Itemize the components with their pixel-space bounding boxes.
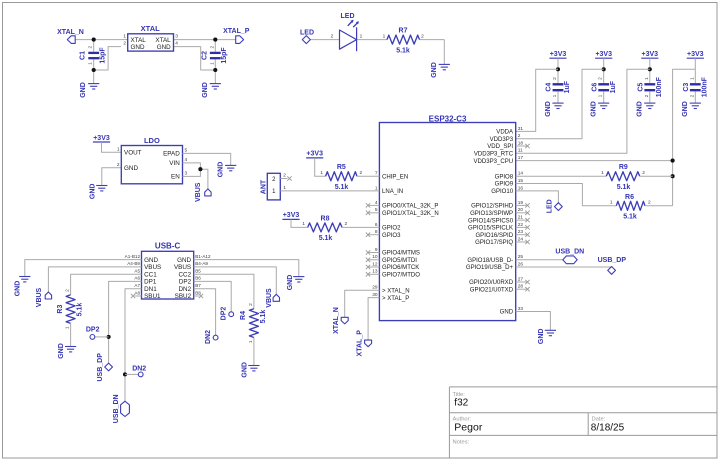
svg-text:R8: R8: [321, 215, 330, 222]
svg-text:GND: GND: [682, 101, 689, 117]
svg-text:GPIO7/MTDO: GPIO7/MTDO: [382, 273, 420, 279]
svg-text:R4: R4: [240, 311, 247, 320]
svg-text:2: 2: [345, 221, 348, 227]
svg-text:2: 2: [283, 173, 286, 179]
svg-text:GND: GND: [500, 310, 514, 316]
svg-text:XTAL: XTAL: [141, 24, 160, 33]
svg-text:> XTAL_P: > XTAL_P: [382, 296, 409, 302]
svg-text:1: 1: [283, 185, 286, 191]
svg-text:C2: C2: [202, 51, 209, 60]
svg-text:LDO: LDO: [144, 136, 160, 145]
svg-text:GND: GND: [287, 275, 294, 291]
svg-text:LED: LED: [341, 13, 355, 20]
svg-text:GND: GND: [431, 62, 438, 78]
svg-text:B5: B5: [195, 269, 201, 274]
svg-text:4: 4: [185, 157, 188, 163]
svg-text:GPIO14/SPICS0: GPIO14/SPICS0: [468, 218, 514, 224]
svg-text:1: 1: [360, 34, 363, 40]
svg-text:2: 2: [248, 303, 254, 306]
svg-text:3: 3: [185, 171, 188, 177]
svg-text:GPIO20/U0RXD: GPIO20/U0RXD: [469, 280, 514, 286]
svg-text:GPIO17/SPIQ: GPIO17/SPIQ: [475, 240, 513, 246]
svg-text:VBUS: VBUS: [195, 182, 202, 202]
svg-text:2: 2: [648, 200, 651, 206]
svg-text:1: 1: [689, 77, 695, 80]
svg-text:2: 2: [642, 170, 645, 176]
svg-text:5.1k: 5.1k: [260, 310, 267, 324]
svg-text:2: 2: [331, 34, 334, 40]
svg-text:DP2: DP2: [86, 327, 100, 334]
svg-text:2: 2: [209, 46, 215, 49]
svg-text:5.1k: 5.1k: [623, 214, 637, 221]
svg-text:VDD3P3_CPU: VDD3P3_CPU: [473, 159, 513, 165]
svg-text:SBU1: SBU1: [144, 293, 161, 300]
svg-text:+3V3: +3V3: [283, 212, 300, 219]
svg-text:5.1k: 5.1k: [319, 235, 333, 242]
svg-text:C6: C6: [591, 83, 598, 92]
svg-text:R7: R7: [399, 27, 408, 34]
svg-text:11: 11: [518, 148, 523, 154]
svg-text:1: 1: [598, 94, 604, 97]
svg-text:GPIO19/USB_D+: GPIO19/USB_D+: [466, 265, 514, 271]
svg-text:ANT: ANT: [260, 179, 267, 194]
svg-text:GPIO1/XTAL_32K_N: GPIO1/XTAL_32K_N: [382, 211, 439, 217]
svg-text:31: 31: [518, 126, 524, 132]
svg-text:DP2: DP2: [179, 279, 192, 286]
svg-text:> XTAL_N: > XTAL_N: [382, 289, 410, 295]
svg-text:8/18/25: 8/18/25: [591, 422, 625, 433]
svg-text:5.1k: 5.1k: [396, 47, 410, 54]
svg-text:GND: GND: [157, 44, 171, 51]
svg-text:SBU2: SBU2: [175, 293, 192, 300]
svg-text:2: 2: [64, 289, 70, 292]
svg-text:XTAL_N: XTAL_N: [57, 29, 84, 36]
svg-text:15pF: 15pF: [100, 47, 107, 64]
svg-text:GND: GND: [242, 362, 249, 378]
svg-text:DN1: DN1: [144, 286, 157, 293]
svg-text:GND: GND: [591, 101, 598, 117]
svg-text:DN2: DN2: [205, 330, 212, 344]
svg-text:GPIO18/USB_D-: GPIO18/USB_D-: [467, 258, 513, 264]
svg-text:100nF: 100nF: [702, 76, 709, 97]
svg-text:R6: R6: [625, 194, 634, 201]
svg-text:C1: C1: [79, 51, 86, 60]
svg-text:USB_DP: USB_DP: [598, 257, 627, 264]
svg-text:VDD_SPI: VDD_SPI: [487, 144, 513, 150]
svg-text:5.1k: 5.1k: [335, 184, 349, 191]
svg-text:GPIO6/MTCK: GPIO6/MTCK: [382, 265, 419, 271]
svg-text:USB-C: USB-C: [155, 242, 181, 251]
svg-text:GND: GND: [177, 257, 191, 264]
svg-text:f32: f32: [454, 398, 468, 409]
svg-text:+3V3: +3V3: [306, 151, 323, 158]
svg-text:2: 2: [518, 133, 521, 139]
svg-text:1: 1: [248, 340, 254, 343]
svg-text:GND: GND: [124, 165, 138, 172]
svg-text:DP2: DP2: [220, 307, 227, 321]
svg-text:GND: GND: [58, 343, 65, 359]
svg-text:1uF: 1uF: [564, 80, 571, 93]
svg-text:+3V3: +3V3: [642, 51, 659, 58]
svg-text:VDDA: VDDA: [496, 130, 514, 136]
svg-text:A6: A6: [134, 276, 140, 281]
svg-text:XTAL: XTAL: [131, 37, 147, 44]
svg-text:1: 1: [644, 77, 650, 80]
svg-text:GPIO8: GPIO8: [495, 174, 514, 180]
svg-text:LED: LED: [300, 29, 314, 36]
svg-text:VDD3P3: VDD3P3: [490, 137, 514, 143]
svg-text:VIN: VIN: [169, 160, 180, 167]
svg-text:VDD3P3_RTC: VDD3P3_RTC: [474, 152, 514, 158]
svg-text:+3V3: +3V3: [687, 51, 704, 58]
svg-text:1: 1: [64, 326, 70, 329]
svg-text:2: 2: [88, 46, 94, 49]
svg-text:A4-B9: A4-B9: [127, 261, 140, 266]
svg-text:GPIO5/MTDI: GPIO5/MTDI: [382, 258, 417, 264]
svg-text:GND: GND: [538, 329, 545, 345]
svg-text:XTAL_P: XTAL_P: [356, 330, 363, 357]
svg-text:Notes:: Notes:: [453, 439, 470, 445]
svg-text:GPIO10: GPIO10: [491, 189, 513, 195]
svg-text:GND: GND: [545, 101, 552, 117]
svg-text:B6: B6: [195, 276, 201, 281]
svg-text:3: 3: [175, 34, 178, 40]
svg-text:2: 2: [123, 41, 126, 47]
svg-text:1: 1: [601, 170, 604, 176]
svg-text:GPIO21/U0TXD: GPIO21/U0TXD: [470, 287, 514, 293]
svg-text:CHIP_EN: CHIP_EN: [382, 174, 408, 180]
svg-text:2: 2: [689, 94, 695, 97]
svg-text:100nF: 100nF: [656, 76, 663, 97]
svg-text:A5: A5: [134, 269, 140, 274]
svg-text:USB_DN: USB_DN: [555, 249, 584, 256]
svg-text:USB_DP: USB_DP: [97, 353, 104, 382]
svg-text:GPIO3: GPIO3: [382, 233, 401, 239]
svg-text:5: 5: [185, 148, 188, 154]
svg-text:EPAD: EPAD: [163, 151, 180, 158]
svg-text:GND: GND: [80, 82, 87, 98]
svg-text:GND: GND: [89, 184, 96, 200]
svg-text:VBUS: VBUS: [266, 288, 273, 308]
svg-text:1: 1: [117, 146, 120, 152]
svg-text:GND: GND: [202, 82, 209, 98]
svg-text:1uF: 1uF: [610, 80, 617, 93]
svg-text:B8: B8: [195, 290, 201, 295]
svg-text:+3V3: +3V3: [595, 51, 612, 58]
svg-text:GPIO9: GPIO9: [495, 182, 514, 188]
svg-text:A7: A7: [134, 283, 140, 288]
svg-text:GPIO4/MTMS: GPIO4/MTMS: [382, 251, 420, 257]
svg-text:GND: GND: [131, 44, 145, 51]
svg-text:1: 1: [320, 170, 323, 176]
svg-text:C5: C5: [637, 83, 644, 92]
svg-text:2: 2: [552, 77, 558, 80]
svg-text:XTAL_P: XTAL_P: [223, 28, 250, 35]
svg-text:1: 1: [302, 221, 305, 227]
svg-text:ESP32-C3: ESP32-C3: [429, 114, 467, 123]
svg-text:GND: GND: [14, 281, 21, 297]
svg-text:GPIO16/SPID: GPIO16/SPID: [475, 233, 513, 239]
svg-text:GPIO0/XTAL_32K_P: GPIO0/XTAL_32K_P: [382, 204, 438, 210]
svg-text:5.1k: 5.1k: [77, 303, 84, 317]
svg-text:17: 17: [518, 155, 524, 161]
svg-text:GPIO15/SPICLK: GPIO15/SPICLK: [468, 226, 513, 232]
svg-text:15pF: 15pF: [221, 47, 228, 64]
svg-text:GPIO2: GPIO2: [382, 226, 401, 232]
svg-text:5.1k: 5.1k: [617, 184, 631, 191]
svg-text:A1-B12: A1-B12: [125, 254, 141, 259]
svg-text:2: 2: [360, 170, 363, 176]
svg-text:2: 2: [421, 34, 424, 40]
svg-text:1: 1: [209, 62, 215, 65]
svg-text:CC1: CC1: [144, 271, 157, 278]
svg-text:USB_DN: USB_DN: [113, 394, 120, 423]
svg-text:1: 1: [552, 94, 558, 97]
svg-text:VBUS: VBUS: [36, 287, 43, 307]
svg-text:GPIO13/SPIWP: GPIO13/SPIWP: [470, 211, 513, 217]
svg-text:R3: R3: [57, 305, 64, 314]
svg-text:C4: C4: [546, 83, 553, 92]
svg-text:2: 2: [598, 77, 604, 80]
svg-text:R9: R9: [619, 164, 628, 171]
svg-text:EN: EN: [171, 174, 180, 181]
svg-text:GPIO12/SPIHD: GPIO12/SPIHD: [471, 204, 514, 210]
svg-text:LED: LED: [546, 199, 553, 213]
svg-text:DN2: DN2: [132, 366, 146, 373]
svg-text:VBUS: VBUS: [144, 264, 161, 271]
svg-text:R5: R5: [337, 164, 346, 171]
svg-text:Pegor: Pegor: [454, 421, 483, 433]
svg-text:2: 2: [117, 162, 120, 168]
svg-text:C3: C3: [683, 83, 690, 92]
svg-text:XTAL_N: XTAL_N: [333, 307, 340, 334]
svg-text:GND: GND: [637, 101, 644, 117]
svg-text:1: 1: [123, 34, 126, 40]
svg-text:DN2: DN2: [178, 286, 191, 293]
svg-text:2: 2: [644, 94, 650, 97]
svg-text:1: 1: [383, 34, 386, 40]
svg-text:GND: GND: [218, 162, 225, 178]
svg-text:Date:: Date:: [592, 416, 606, 422]
svg-text:VBUS: VBUS: [174, 264, 191, 271]
svg-text:B1-A12: B1-A12: [195, 254, 211, 259]
svg-text:B4-A9: B4-A9: [195, 261, 208, 266]
svg-text:DP1: DP1: [144, 279, 157, 286]
svg-text:+3V3: +3V3: [93, 135, 110, 142]
svg-text:A8: A8: [134, 290, 140, 295]
svg-text:VOUT: VOUT: [124, 150, 142, 157]
svg-text:B7: B7: [195, 283, 201, 288]
svg-text:+3V3: +3V3: [550, 51, 567, 58]
svg-text:1: 1: [88, 62, 94, 65]
svg-text:1: 1: [610, 200, 613, 206]
svg-text:XTAL: XTAL: [155, 37, 171, 44]
svg-text:GND: GND: [144, 257, 158, 264]
svg-text:LNA_IN: LNA_IN: [382, 189, 403, 195]
svg-text:4: 4: [175, 41, 178, 47]
svg-text:CC2: CC2: [178, 271, 191, 278]
